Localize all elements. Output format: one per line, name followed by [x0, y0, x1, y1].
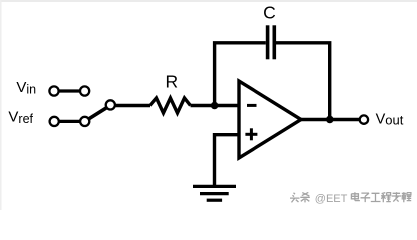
capacitor C1 left plate	[266, 25, 270, 59]
terminal Vref left	[50, 117, 59, 126]
svg-text:Vin: Vin	[16, 79, 36, 96]
ground	[193, 186, 236, 200]
watermark glyph ji	[402, 192, 412, 202]
wire non-inverting input	[215, 135, 240, 186]
terminal Vout	[360, 115, 368, 123]
op-amp U1	[239, 81, 301, 158]
svg-text:Vref: Vref	[8, 109, 33, 126]
watermark glyph tou	[290, 193, 300, 203]
capacitor C1 right plate	[272, 25, 276, 59]
terminal Vin contact	[80, 86, 89, 95]
wire feedback top right and right vertical	[276, 43, 330, 120]
watermark glyph gong	[371, 193, 381, 201]
watermark	[290, 192, 411, 205]
watermark glyph cheng	[381, 193, 391, 203]
wire Vin terminal link	[54, 89, 85, 92]
wire pole to resistor	[110, 104, 150, 107]
junction dot at inverting input node	[211, 102, 219, 110]
junction dot at output node	[326, 116, 334, 124]
svg-text:@EET: @EET	[315, 193, 348, 205]
switch SW1 lever	[85, 105, 111, 121]
resistor R	[150, 98, 191, 113]
wire resistor to op-amp inverting input	[191, 104, 241, 107]
terminal Vref contact	[80, 117, 89, 126]
svg-text:R: R	[165, 71, 178, 91]
watermark glyph tiao	[300, 192, 310, 202]
watermark glyph dian	[351, 192, 360, 200]
svg-text:Vout: Vout	[376, 111, 404, 127]
svg-text:C: C	[263, 2, 276, 22]
watermark glyph zhuan	[392, 192, 402, 201]
switch pole terminal	[106, 100, 115, 109]
wire feedback left vertical and top	[215, 43, 266, 106]
wire Vref terminal link	[54, 120, 84, 123]
wire output	[299, 118, 359, 121]
terminal Vin left	[49, 86, 58, 95]
watermark glyph zi	[361, 193, 371, 202]
